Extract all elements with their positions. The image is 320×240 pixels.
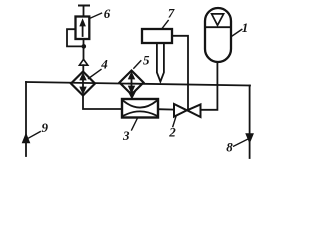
wire: valve 6 tank stem [83,6,85,17]
leader line label 1 [231,29,242,36]
leader line label 7 [162,21,168,29]
component 3: upper concave curve [124,101,157,108]
leader line label 8 [234,139,249,146]
wire: main horizontal supply line [26,82,250,86]
wire: valve 2 to accumulator branch [201,62,218,110]
leader line label 2 [173,116,176,127]
svg-text:3: 3 [122,128,130,143]
wire: cooler 3 to valve 2 [158,108,174,110]
valve 6: internal up arrow [80,19,85,36]
component 3: lower concave curve [124,111,157,115]
svg-text:9: 9 [42,120,49,135]
wire: right vertical return line [249,86,251,159]
component 7: plunger with pointed tip [157,43,164,82]
svg-text:4: 4 [100,57,108,72]
leader line label 5 [134,61,141,68]
component 4: internal double arrow [80,73,86,94]
valve 6: pressure relief valve body [76,17,90,40]
wire: triangle to filter 4 [82,65,84,71]
wire: left vertical suction line [25,82,27,156]
node: open triangle below valve 6 [79,59,87,65]
node: pilot junction dot [82,44,87,49]
svg-text:2: 2 [168,125,176,140]
svg-text:7: 7 [168,6,175,21]
leader line label 3 [132,119,137,130]
wire: pilot loop of valve 6 [67,29,82,46]
leader line label 4 [89,70,102,79]
wire: filter 4 down to cooler 3 [83,96,122,110]
component 3: venturi/cooler body [122,99,158,118]
node: tank symbol T [79,5,89,7]
component 1: gas/liquid divider line [205,26,231,28]
valve 2: shut-off valve right triangle [187,104,200,117]
component 4: diamond (filter/exchanger) [71,72,95,96]
svg-text:6: 6 [104,6,111,21]
component 5: diamond (filter/exchanger) [120,71,144,95]
component 1: internal down triangle [212,14,224,25]
svg-text:8: 8 [226,140,233,155]
component 1: accumulator capsule [205,8,231,62]
wire: press 7 to valve 2 vertical [172,36,188,110]
svg-text:1: 1 [242,20,249,35]
leader line label 9 [28,132,41,139]
valve 2: shut-off valve left triangle [174,104,187,117]
node: arrow 8 (flow out, down) [246,134,253,143]
component 7: press cap [142,29,172,43]
wire: down arrow from 5 into cooler 3 [128,92,135,99]
component 5: internal double arrow [128,72,134,93]
svg-text:5: 5 [143,52,150,67]
leader line label 6 [90,13,102,18]
node: arrow 9 (flow in, up) [22,134,29,143]
wire: valve 6 bottom stem with pilot junction [83,39,85,59]
